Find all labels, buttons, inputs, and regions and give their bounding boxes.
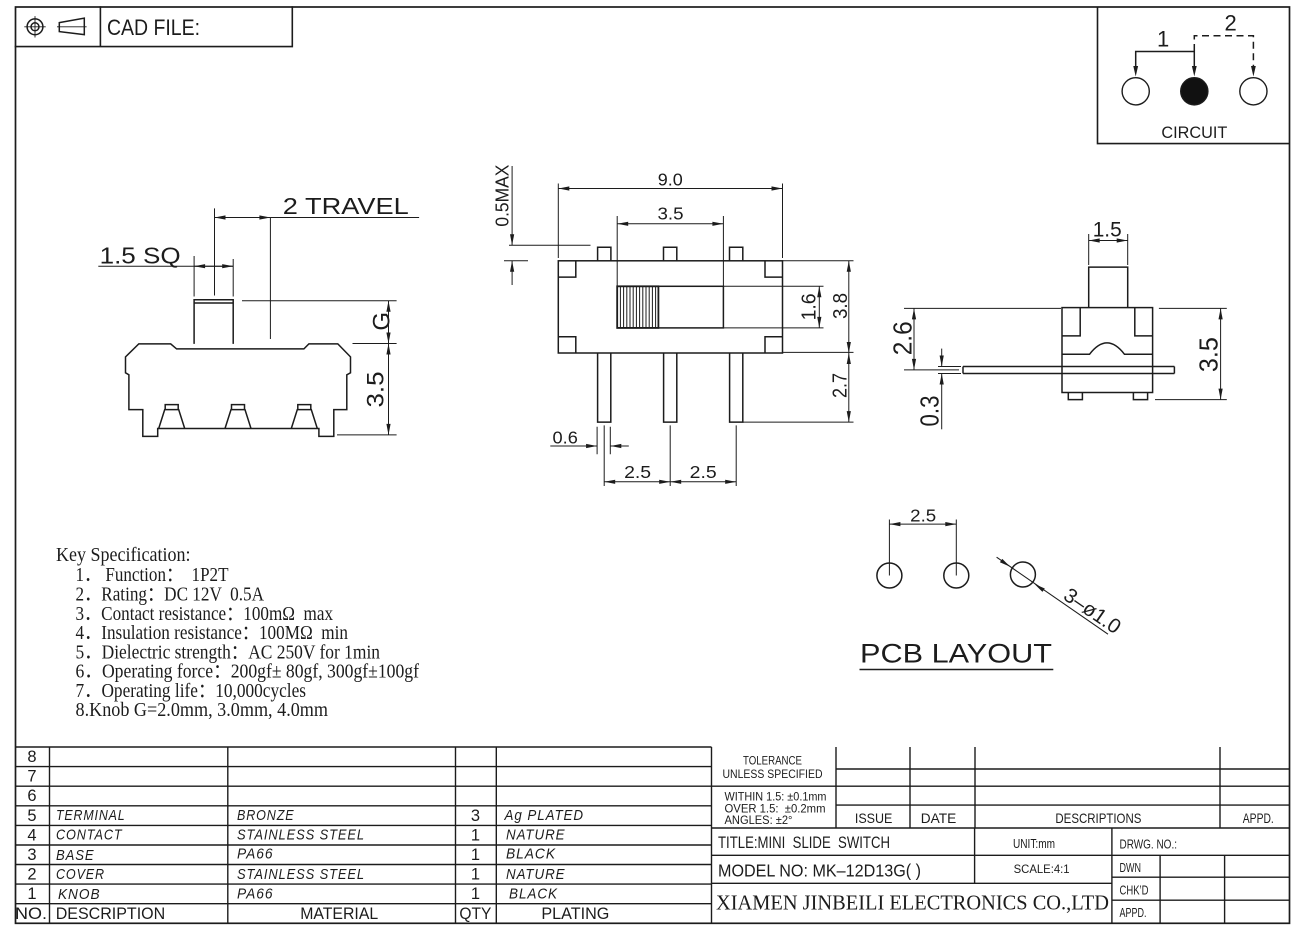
dim 0.6	[550, 427, 629, 455]
front view corner square TL	[558, 261, 576, 277]
tolerance cell	[723, 754, 823, 782]
right view pin through	[963, 367, 1174, 374]
svg-text:PA66: PA66	[237, 847, 274, 863]
svg-text:2: 2	[27, 866, 36, 884]
front view knob hatched	[617, 286, 658, 328]
svg-text:DRWG. NO.:: DRWG. NO.:	[1120, 837, 1178, 851]
svg-text:2．Rating：DC 12V 0.5A: 2．Rating：DC 12V 0.5A	[76, 585, 265, 606]
pcb hole 3	[1010, 562, 1035, 587]
svg-text:DATE: DATE	[921, 810, 957, 826]
front view pin 2	[664, 353, 677, 422]
right view body	[1062, 308, 1153, 393]
svg-text:7: 7	[27, 768, 36, 786]
circuit terminal circle right	[1240, 78, 1267, 105]
svg-text:UNLESS SPECIFIED: UNLESS SPECIFIED	[723, 767, 823, 781]
side view terminal 3	[291, 405, 317, 429]
svg-text:1: 1	[471, 866, 480, 884]
svg-text:1: 1	[1157, 27, 1169, 52]
svg-text:COVER: COVER	[56, 867, 105, 883]
pcb hole 1	[877, 563, 902, 588]
dim 0.5MAX	[504, 166, 591, 285]
svg-text:3: 3	[471, 807, 480, 825]
svg-text:3.5: 3.5	[658, 204, 684, 224]
svg-text:UNIT:mm: UNIT:mm	[1013, 836, 1055, 851]
front view top bump 3	[730, 247, 743, 260]
leader 3-dia1.0	[997, 557, 1108, 634]
front view top bump 2	[664, 247, 677, 260]
svg-text:8.Knob G=2.0mm, 3.0mm, 4.0mm: 8.Knob G=2.0mm, 3.0mm, 4.0mm	[76, 700, 329, 721]
svg-text:DESCRIPTIONS: DESCRIPTIONS	[1055, 810, 1141, 826]
projection symbol cone	[57, 18, 87, 34]
front view body	[558, 261, 782, 353]
circuit wire dashed pos2	[1194, 36, 1253, 67]
svg-text:1: 1	[471, 826, 480, 844]
side view knob	[194, 300, 233, 344]
svg-text:0.5MAX: 0.5MAX	[493, 165, 513, 227]
svg-text:APPD.: APPD.	[1120, 906, 1147, 920]
svg-text:BRONZE: BRONZE	[237, 808, 295, 824]
dim 2.5 pcb	[889, 520, 956, 576]
svg-text:BASE: BASE	[56, 848, 95, 864]
svg-text:PLATING: PLATING	[541, 904, 609, 923]
circuit box border	[1098, 7, 1290, 144]
svg-text:1: 1	[471, 846, 480, 864]
svg-text:1． Function： 1P2T: 1． Function： 1P2T	[76, 565, 229, 586]
front view pin 1	[598, 353, 611, 422]
BOM vertical lines	[49, 747, 51, 923]
svg-text:2.7: 2.7	[830, 373, 852, 398]
svg-text:NATURE: NATURE	[506, 828, 566, 844]
circuit terminal circle left	[1122, 78, 1149, 105]
svg-text:0.3: 0.3	[917, 396, 945, 427]
front view corner square BR	[765, 337, 783, 353]
right view foot left	[1068, 393, 1082, 400]
svg-text:2: 2	[1225, 11, 1237, 36]
svg-text:3.5: 3.5	[1196, 337, 1224, 372]
svg-text:QTY: QTY	[459, 904, 491, 923]
svg-text:8: 8	[27, 748, 36, 766]
svg-text:DESCRIPTION: DESCRIPTION	[56, 904, 166, 923]
svg-text:4．Insulation resistance：100MΩ: 4．Insulation resistance：100MΩ min	[76, 623, 349, 644]
svg-text:MATERIAL: MATERIAL	[300, 904, 378, 923]
side view terminal 2	[225, 405, 251, 429]
svg-text:CHK’D: CHK’D	[1120, 884, 1149, 898]
svg-text:7．Operating life：10,000cycles: 7．Operating life：10,000cycles	[76, 681, 307, 702]
svg-text:NATURE: NATURE	[506, 867, 566, 883]
svg-text:MODEL NO: MK–12D13G( ): MODEL NO: MK–12D13G( )	[718, 861, 921, 881]
dim 1.5 right	[1089, 234, 1128, 265]
svg-text:CIRCUIT: CIRCUIT	[1161, 123, 1227, 142]
svg-text:0.6: 0.6	[553, 428, 578, 448]
svg-text:BLACK: BLACK	[509, 887, 558, 903]
svg-text:PA66: PA66	[237, 887, 274, 903]
svg-text:3.8: 3.8	[830, 293, 852, 319]
dim 2.6	[904, 308, 1061, 370]
svg-text:G: G	[368, 312, 395, 331]
dim 2.5 pins	[604, 425, 736, 486]
BOM numbers column	[27, 748, 36, 903]
right view wave line	[1062, 343, 1153, 354]
svg-text:ANGLES: ±2°: ANGLES: ±2°	[725, 813, 793, 827]
title block verticals	[835, 747, 837, 828]
BOM horizontal lines	[16, 746, 712, 748]
circuit arrowheads	[1133, 66, 1256, 77]
circuit terminal circle middle (filled)	[1181, 78, 1208, 105]
revision header labels	[855, 810, 1274, 826]
side view terminal 1	[159, 405, 185, 429]
svg-text:2.5: 2.5	[624, 462, 651, 482]
svg-text:3.5: 3.5	[363, 372, 390, 408]
svg-text:Ag PLATED: Ag PLATED	[504, 808, 584, 824]
BOM qty column	[471, 807, 480, 903]
svg-text:KNOB: KNOB	[58, 887, 101, 903]
svg-text:CONTACT: CONTACT	[56, 828, 123, 844]
dim 3.5 right	[1155, 308, 1227, 399]
svg-text:2.6: 2.6	[890, 321, 918, 355]
svg-text:2.5: 2.5	[910, 506, 936, 526]
svg-text:5: 5	[27, 807, 36, 825]
svg-text:ISSUE: ISSUE	[855, 810, 893, 826]
dim 3.8	[783, 261, 854, 353]
projection symbol circle	[24, 16, 45, 37]
BOM description column	[56, 808, 126, 903]
dim 0.3	[938, 349, 961, 430]
svg-text:APPD.: APPD.	[1243, 810, 1274, 826]
svg-text:1: 1	[27, 885, 36, 903]
CAD FILE title box	[16, 7, 293, 47]
front view pin 3	[730, 353, 743, 422]
svg-text:TITLE:MINI SLIDE SWITCH: TITLE:MINI SLIDE SWITCH	[718, 834, 890, 852]
dim 3.5 side	[337, 344, 397, 435]
svg-text:1.6: 1.6	[798, 293, 820, 320]
svg-text:6: 6	[27, 787, 36, 805]
svg-text:2.5: 2.5	[690, 462, 717, 482]
right view notch TR	[1135, 308, 1153, 336]
title block horizontals	[836, 768, 1290, 770]
svg-text:BLACK: BLACK	[506, 847, 556, 863]
dim 2 TRAVEL	[215, 208, 420, 339]
svg-text:3: 3	[27, 846, 36, 864]
svg-text:6．Operating force：200gf± 80gf,: 6．Operating force：200gf± 80gf, 300gf±100…	[76, 662, 420, 683]
BOM plating column	[504, 808, 584, 903]
svg-text:1: 1	[471, 885, 480, 903]
svg-text:SCALE:4:1: SCALE:4:1	[1014, 864, 1070, 876]
dim 3.5 front	[617, 216, 723, 286]
svg-text:4: 4	[27, 826, 36, 844]
svg-text:TERMINAL: TERMINAL	[56, 808, 126, 824]
svg-text:CAD FILE:: CAD FILE:	[107, 15, 200, 40]
dim 9.0	[558, 184, 782, 259]
svg-text:1.5 SQ: 1.5 SQ	[100, 243, 181, 269]
right view notch TL	[1062, 308, 1080, 336]
front view slider window	[617, 286, 723, 328]
svg-text:3．Contact resistance：100mΩ ma: 3．Contact resistance：100mΩ max	[76, 604, 334, 625]
svg-text:NO.: NO.	[15, 904, 47, 923]
svg-text:9.0: 9.0	[658, 169, 683, 189]
dim 2.7	[743, 353, 854, 422]
pcb hole 2	[944, 563, 969, 588]
BOM material column	[237, 808, 365, 903]
svg-text:PCB LAYOUT: PCB LAYOUT	[860, 639, 1052, 669]
front view corner square TR	[765, 261, 783, 277]
svg-text:XIAMEN JINBEILI ELECTRONICS CO: XIAMEN JINBEILI ELECTRONICS CO.,LTD	[716, 891, 1109, 915]
dim 1.6	[723, 286, 823, 328]
right view foot right	[1133, 393, 1147, 400]
circuit wire solid pos1	[1136, 52, 1195, 67]
dim G	[242, 301, 397, 344]
dim 1.5 SQ	[98, 256, 233, 297]
svg-text:Key Specification:: Key Specification:	[56, 545, 191, 566]
svg-text:STAINLESS STEEL: STAINLESS STEEL	[237, 867, 365, 883]
svg-text:TOLERANCE: TOLERANCE	[743, 754, 802, 768]
front view corner square BL	[558, 337, 576, 353]
svg-text:5．Dielectric strength：AC 250V: 5．Dielectric strength：AC 250V for 1min	[76, 643, 381, 664]
side view body outline	[126, 344, 351, 437]
svg-text:1.5: 1.5	[1093, 219, 1122, 242]
svg-text:2 TRAVEL: 2 TRAVEL	[283, 193, 409, 219]
svg-text:DWN: DWN	[1120, 861, 1142, 875]
front view top bump 1	[598, 247, 611, 260]
BOM header row	[15, 904, 609, 923]
right view knob	[1089, 267, 1128, 308]
svg-text:STAINLESS STEEL: STAINLESS STEEL	[237, 828, 365, 844]
